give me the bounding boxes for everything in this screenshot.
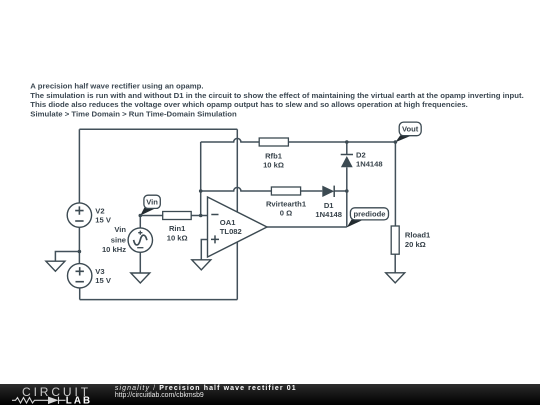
wire D1 to prediode branch bbox=[334, 190, 347, 192]
label D2 1N4148 bbox=[356, 150, 383, 168]
ground symbol at non-inverting input bbox=[192, 260, 211, 270]
ground symbol below Rload1 bbox=[386, 273, 405, 283]
footer logo CIRCUIT LAB bbox=[12, 385, 92, 405]
svg-text:Rload1: Rload1 bbox=[405, 231, 431, 240]
junction dot feedback/virtual-earth tee bbox=[199, 189, 203, 193]
svg-text:V2: V2 bbox=[95, 206, 104, 215]
ground symbol below Vin source bbox=[131, 273, 150, 283]
wire Vin node to Rin1 bbox=[140, 215, 163, 217]
svg-text:Vin: Vin bbox=[146, 197, 158, 206]
svg-text:20 kΩ: 20 kΩ bbox=[405, 240, 426, 249]
wire Rin1 to inverting input bbox=[191, 215, 207, 217]
node flag Vout bbox=[395, 122, 421, 142]
wire V2 to V3 bbox=[78, 227, 80, 263]
ground symbol at V2/V3 node bbox=[46, 261, 65, 271]
svg-text:10 kΩ: 10 kΩ bbox=[167, 233, 188, 242]
voltage source V3 bbox=[68, 264, 92, 288]
svg-text:http://circuitlab.com/cbkmsb9: http://circuitlab.com/cbkmsb9 bbox=[115, 392, 204, 399]
junction dot V2/V3 ground node bbox=[78, 250, 82, 254]
resistor Rvirtearth1 bbox=[271, 187, 300, 195]
wire Vout line down to D2 bbox=[346, 142, 348, 155]
svg-text:D2: D2 bbox=[356, 150, 366, 159]
junction dot Vout corner bbox=[394, 140, 398, 144]
svg-text:The simulation is run with and: The simulation is run with and without D… bbox=[30, 91, 523, 100]
wire op-amp V- pin vertical bbox=[236, 242, 238, 300]
wire ground stub from V2/V3 node bbox=[55, 252, 79, 262]
svg-text:A precision half wave rectifie: A precision half wave rectifier using an… bbox=[30, 82, 203, 91]
wire D2 to D1 node bbox=[346, 167, 348, 191]
node flag Vin bbox=[140, 195, 160, 215]
junction dot D1/D2 node bbox=[345, 189, 349, 193]
footer bar bbox=[0, 384, 540, 405]
voltage source Vin sine bbox=[128, 228, 152, 252]
wire Vin node to sine source bbox=[139, 216, 141, 228]
label Rfb1 10 kOhm bbox=[263, 151, 284, 169]
svg-text:Rfb1: Rfb1 bbox=[265, 151, 283, 160]
description text block bbox=[30, 82, 523, 119]
wire non-inverting input to ground bbox=[201, 240, 207, 260]
wire top rail from left branch to op-amp V+ bbox=[79, 128, 237, 130]
diode D1 bbox=[322, 186, 334, 197]
svg-text:Simulate > Time Domain > Run T: Simulate > Time Domain > Run Time-Domain… bbox=[30, 110, 237, 119]
svg-text:Vin: Vin bbox=[114, 225, 126, 234]
wire V3 to bottom rail bbox=[79, 288, 81, 300]
svg-text:TL082: TL082 bbox=[220, 227, 242, 236]
wire op-amp output bbox=[267, 226, 347, 228]
label Rin1 10 kOhm bbox=[167, 224, 188, 242]
wire feedback vertical at inverting node bbox=[200, 142, 202, 216]
svg-text:V3: V3 bbox=[95, 267, 104, 276]
wire Rvirtearth1 to D1 bbox=[301, 190, 323, 192]
svg-text:15 V: 15 V bbox=[95, 276, 112, 285]
resistor Rfb1 bbox=[259, 138, 288, 146]
wire bottom rail bbox=[80, 299, 238, 301]
junction dot Vin node bbox=[139, 214, 143, 218]
wire Vout corner down to Rload1 bbox=[394, 142, 396, 226]
label Rvirtearth1 0 Ohm bbox=[266, 199, 307, 217]
resistor Rin1 bbox=[163, 212, 192, 220]
svg-text:LAB: LAB bbox=[66, 395, 92, 405]
label V3 15 V bbox=[95, 267, 112, 285]
wire feedback to Rfb1 with hop over supply bbox=[201, 138, 259, 142]
svg-text:Rvirtearth1: Rvirtearth1 bbox=[266, 199, 307, 208]
svg-text:sine: sine bbox=[111, 236, 126, 245]
svg-text:10 kHz: 10 kHz bbox=[102, 245, 126, 254]
wire sine source to ground bbox=[139, 252, 141, 273]
junction dot D2 top at Vout line bbox=[345, 140, 349, 144]
op-amp OA1 bbox=[208, 197, 268, 257]
svg-text:OA1: OA1 bbox=[220, 218, 236, 227]
svg-text:15 V: 15 V bbox=[95, 216, 112, 225]
voltage source V2 bbox=[67, 203, 91, 227]
svg-text:D1: D1 bbox=[324, 201, 334, 210]
svg-text:10 kΩ: 10 kΩ bbox=[263, 161, 284, 170]
svg-text:prediode: prediode bbox=[353, 210, 385, 219]
svg-text:1N4148: 1N4148 bbox=[356, 160, 383, 169]
label Vin sine 10 kHz bbox=[102, 225, 126, 254]
wire op-amp V+ pin vertical bbox=[236, 129, 238, 212]
wire Rfb1 to Vout corner bbox=[288, 141, 395, 143]
wire Rload1 to ground bbox=[394, 254, 396, 273]
svg-text:Rin1: Rin1 bbox=[169, 224, 186, 233]
wire D1 node down to op-amp output bbox=[346, 191, 348, 227]
label OA1 TL082 bbox=[220, 218, 242, 236]
svg-text:1N4148: 1N4148 bbox=[315, 210, 342, 219]
svg-text:Vout: Vout bbox=[402, 125, 419, 134]
label Rload1 20 kOhm bbox=[405, 231, 431, 250]
svg-text:0 Ω: 0 Ω bbox=[280, 209, 292, 218]
diode D2 bbox=[341, 155, 353, 168]
node flag prediode bbox=[347, 208, 389, 228]
junction dot inverting input bbox=[199, 214, 203, 218]
label V2 15 V bbox=[95, 206, 112, 224]
resistor Rload1 bbox=[391, 226, 399, 254]
svg-text:This diode also reduces the vo: This diode also reduces the voltage over… bbox=[30, 100, 468, 109]
label D1 1N4148 bbox=[315, 201, 342, 219]
wire inverting node to Rvirtearth1 with hop over supply bbox=[201, 187, 272, 191]
wire left vertical from top rail to V2 bbox=[78, 129, 80, 203]
